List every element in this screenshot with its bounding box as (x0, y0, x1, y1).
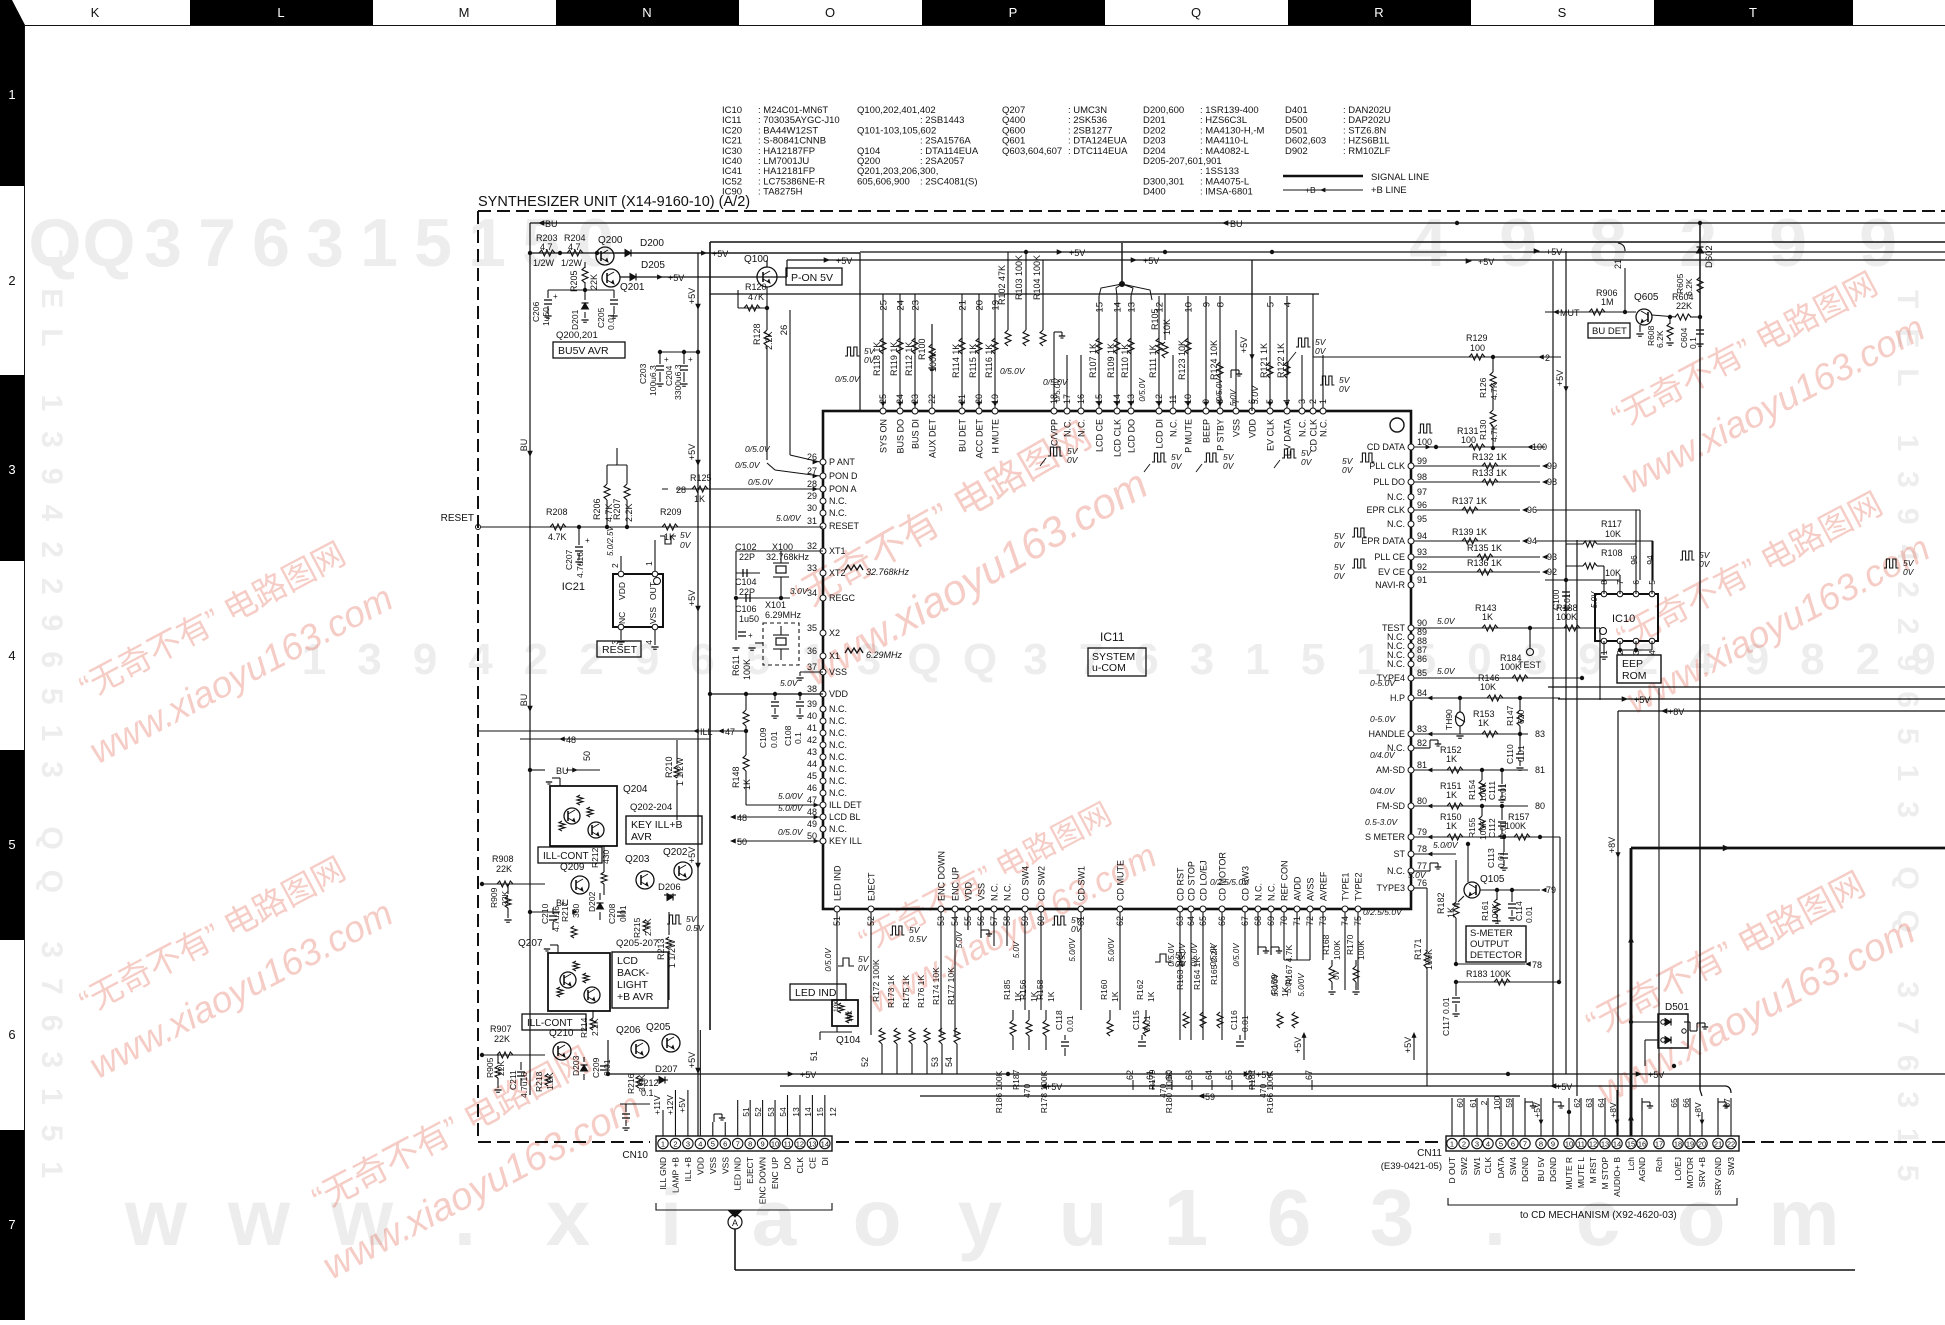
svg-text:10K: 10K (1605, 529, 1621, 539)
svg-text:1: 1 (1450, 1140, 1454, 1149)
svg-text:19: 19 (1686, 1140, 1694, 1149)
svg-text:Q200: Q200 (598, 235, 623, 246)
svg-text:BU: BU (1230, 219, 1243, 229)
svg-text:R160: R160 (1099, 979, 1109, 1000)
svg-text:44: 44 (807, 759, 817, 769)
svg-text:9: 9 (1551, 1140, 1555, 1149)
bracket pins 70-73 (1284, 959, 1310, 961)
resistor R124 10K (1217, 362, 1223, 378)
svg-text:R178 100K: R178 100K (1039, 1070, 1049, 1113)
svg-text:5.0V: 5.0V (955, 931, 964, 948)
VDD +5V drop to pin 6 (1251, 260, 1253, 411)
svg-text:78: 78 (1532, 960, 1542, 970)
svg-text:21: 21 (1714, 1140, 1722, 1149)
resistor R167 4.7K (1292, 1012, 1298, 1028)
svg-text:L: L (277, 5, 284, 20)
svg-text:IC11: IC11 (1100, 630, 1125, 644)
capacitor C604 0.1 (1699, 317, 1701, 328)
wire EPR DATA pin94 (1414, 540, 1520, 542)
svg-text:R154: R154 (1467, 779, 1477, 800)
svg-text:0V: 0V (1071, 924, 1083, 934)
svg-text:R183 100K: R183 100K (1466, 969, 1511, 979)
svg-text:12: 12 (1589, 1140, 1597, 1149)
svg-text:R165 2.2K: R165 2.2K (1209, 945, 1219, 985)
svg-text:100K: 100K (1356, 940, 1366, 960)
svg-text:BUS DI: BUS DI (911, 419, 921, 449)
IC11 top pins (880, 408, 886, 414)
svg-text:R123 10K: R123 10K (1177, 340, 1187, 380)
wire ST pin78 (1414, 853, 1456, 855)
svg-text:5.0/0V: 5.0/0V (776, 513, 802, 523)
resistor R203 4.7 1/2W (539, 250, 555, 256)
svg-text:100K: 100K (1490, 903, 1500, 923)
svg-text:1K: 1K (1446, 754, 1457, 764)
svg-text:+5V: +5V (1648, 1070, 1664, 1080)
svg-text:R119 1K: R119 1K (889, 342, 899, 376)
svg-text:K: K (91, 5, 100, 20)
capacitor C203 100u6.3 (658, 350, 662, 354)
svg-text:N.C.: N.C. (1387, 866, 1405, 876)
svg-text:TYPE1: TYPE1 (1341, 872, 1351, 901)
VSS pin7 hook gnd (1230, 370, 1232, 378)
svg-text:R104 100K: R104 100K (1032, 255, 1042, 300)
resistor R114 1K (959, 338, 965, 354)
svg-text:4.7K: 4.7K (548, 532, 567, 542)
svg-text:61: 61 (1145, 1070, 1155, 1080)
svg-text:R111 1K: R111 1K (1148, 344, 1158, 378)
svg-text:2: 2 (1679, 205, 1717, 281)
waveform icons bottom band (890, 926, 904, 935)
svg-text:C205: C205 (596, 307, 606, 328)
resistor R208 4.7K (550, 524, 566, 530)
svg-text:10: 10 (1565, 1140, 1573, 1149)
svg-text:SRV GND: SRV GND (1713, 1157, 1723, 1196)
svg-text:N: N (642, 5, 651, 20)
svg-text:P: P (1009, 5, 1018, 20)
resistor R110 1K (1128, 338, 1134, 354)
svg-text:13: 13 (791, 1107, 801, 1117)
resistor R100 100K (931, 324, 933, 345)
svg-text:0.01: 0.01 (1496, 851, 1506, 868)
svg-text:R185: R185 (1002, 979, 1012, 1000)
svg-text:10: 10 (1184, 302, 1195, 313)
svg-text:C210: C210 (540, 903, 550, 924)
red watermark (287, 1030, 648, 1288)
svg-text:AUX DET: AUX DET (928, 419, 938, 459)
capacitor C110 0.01 (1519, 734, 1521, 752)
svg-text:60: 60 (1455, 1098, 1465, 1108)
svg-text:25: 25 (879, 300, 890, 311)
svg-text:R172 100K: R172 100K (871, 959, 881, 1002)
svg-text:: IMSA-6801: : IMSA-6801 (1200, 187, 1253, 198)
svg-text:M STOP: M STOP (1600, 1157, 1610, 1190)
svg-text:3: 3 (357, 635, 381, 684)
waveform right edge (1884, 559, 1898, 568)
svg-text:PON D: PON D (829, 471, 858, 481)
svg-text:AM-SD: AM-SD (1376, 765, 1406, 775)
svg-text:D206: D206 (658, 882, 681, 893)
waveform icons inside IC top (1048, 447, 1062, 456)
svg-text:C100: C100 (1551, 589, 1561, 610)
vertical line x1695 (1699, 223, 1701, 1090)
svg-text:14: 14 (1113, 302, 1124, 313)
svg-text:0.1: 0.1 (793, 732, 803, 744)
resistor R107 1K (1096, 338, 1102, 354)
svg-text:100K: 100K (1332, 940, 1342, 960)
svg-text:SW2: SW2 (1459, 1157, 1469, 1176)
svg-text:79: 79 (1546, 885, 1556, 895)
svg-text:1: 1 (8, 87, 15, 102)
svg-text:2: 2 (1545, 353, 1550, 363)
svg-text:4.7K: 4.7K (1489, 424, 1499, 442)
ground hook near CN10 pin5 (713, 1114, 715, 1122)
svg-text:Q205-207: Q205-207 (616, 938, 658, 949)
svg-text:REGC: REGC (829, 593, 856, 603)
svg-text:3: 3 (686, 1140, 690, 1149)
svg-text:1: 1 (360, 205, 398, 281)
svg-text:16: 16 (1638, 1140, 1646, 1149)
wire BU branch to Q204 (530, 769, 545, 771)
svg-text:BU 5V: BU 5V (1536, 1157, 1546, 1182)
svg-text:R121 1K: R121 1K (1259, 343, 1269, 378)
svg-text:6.2K: 6.2K (1684, 278, 1694, 296)
svg-text:0/5.0V: 0/5.0V (1232, 943, 1241, 967)
svg-text:R168: R168 (1321, 934, 1331, 955)
resistor R121 1K (1267, 362, 1273, 378)
svg-text:15: 15 (1095, 302, 1106, 313)
resistor R147 620 (1519, 698, 1521, 710)
svg-text:20: 20 (975, 300, 986, 311)
svg-text:X1: X1 (829, 651, 840, 661)
svg-text:A: A (732, 1218, 738, 1228)
svg-text:VDD: VDD (617, 582, 627, 600)
svg-text:(E39-0421-05): (E39-0421-05) (1381, 1161, 1442, 1172)
svg-text:100K: 100K (742, 659, 752, 680)
svg-text:0.01: 0.01 (1562, 593, 1572, 610)
svg-text:R130: R130 (1478, 419, 1488, 440)
resistor R118 1K (880, 338, 886, 354)
svg-text:R147: R147 (1505, 705, 1515, 726)
svg-text:o: o (853, 1173, 902, 1262)
svg-text:0V: 0V (1334, 571, 1346, 581)
svg-text:Q100: Q100 (744, 254, 769, 265)
wire from reset divider to IC21 (649, 448, 651, 465)
svg-text:u-COM: u-COM (1092, 662, 1126, 674)
svg-text:95: 95 (1417, 514, 1427, 524)
wire top-left +5V row y253 (530, 252, 860, 254)
svg-text:10K: 10K (1605, 568, 1621, 578)
wire ILL 47 (478, 730, 746, 732)
capacitor C112 0.01 (1501, 806, 1503, 820)
svg-text:CD DATA: CD DATA (1367, 442, 1405, 452)
svg-text:REF CON: REF CON (1280, 861, 1290, 902)
thermistor TH90 (1459, 698, 1461, 712)
svg-text:1/2W: 1/2W (533, 258, 555, 268)
resistor R185 1K (1012, 1010, 1014, 1020)
svg-text:LIGHT: LIGHT (617, 979, 649, 991)
svg-text:LCD CLK: LCD CLK (1113, 419, 1123, 457)
svg-text:DO: DO (783, 1157, 793, 1170)
svg-text:Q210: Q210 (549, 1028, 574, 1039)
svg-text:+5V: +5V (1069, 248, 1085, 258)
svg-text:4: 4 (1409, 205, 1447, 281)
svg-text:S-METER: S-METER (1470, 928, 1513, 939)
capacitor C100 0.01 (1564, 578, 1568, 582)
svg-text:LED IND: LED IND (833, 865, 843, 901)
svg-text:13: 13 (1601, 1140, 1609, 1149)
resistor R611 100K vertical (745, 694, 747, 710)
svg-text:R215: R215 (632, 917, 642, 938)
svg-text:92: 92 (1547, 567, 1557, 577)
svg-text:Q104: Q104 (836, 1035, 861, 1046)
svg-text:R139 1K: R139 1K (1452, 527, 1487, 537)
svg-text:TH90: TH90 (1444, 709, 1454, 730)
svg-text:M RST: M RST (1588, 1157, 1598, 1183)
svg-text:Q207: Q207 (518, 938, 543, 949)
wire HANDLE pin83 (1414, 733, 1528, 735)
svg-text:31: 31 (807, 516, 817, 526)
resistor R183 100K (1456, 981, 1559, 983)
svg-text:1: 1 (468, 205, 506, 281)
svg-text:80: 80 (1417, 796, 1427, 806)
wire PLL CE pin93 (1414, 556, 1540, 558)
svg-text:EEP: EEP (1622, 658, 1643, 670)
svg-text:Q: Q (83, 205, 136, 281)
legend +B line (1283, 189, 1363, 191)
svg-text:3: 3 (306, 205, 344, 281)
wire BU branch 2 (530, 911, 560, 913)
wire N.C. pin82 hook (1414, 747, 1430, 749)
gnd hooks above CN11 (1524, 1102, 1526, 1110)
svg-text:28: 28 (807, 479, 817, 489)
svg-text:10K: 10K (1162, 319, 1172, 335)
svg-text:+12V: +12V (665, 1095, 675, 1115)
svg-text:TEST: TEST (1518, 660, 1542, 670)
svg-text:RESET: RESET (602, 644, 638, 656)
svg-text:5.0V: 5.0V (1437, 616, 1456, 626)
svg-text:22P: 22P (739, 552, 755, 562)
wire EPR CLK pin96 (1414, 509, 1520, 511)
IC21 leads (620, 556, 622, 571)
svg-text:+5V: +5V (1403, 1037, 1413, 1053)
svg-text:5: 5 (8, 837, 15, 852)
svg-text:59: 59 (1205, 1092, 1215, 1102)
svg-text:30: 30 (807, 503, 817, 513)
svg-text:N.C.: N.C. (1387, 492, 1405, 502)
wire vertical main left rail (709, 242, 711, 1030)
svg-text:+5V: +5V (1239, 337, 1249, 353)
svg-text:98: 98 (1547, 477, 1557, 487)
svg-text:Q205: Q205 (646, 1022, 671, 1033)
svg-text:7: 7 (736, 1140, 740, 1149)
svg-text:N.C.: N.C. (829, 716, 847, 726)
svg-text:1K: 1K (694, 494, 705, 504)
svg-text:+5V: +5V (1546, 247, 1562, 257)
svg-text:C106: C106 (735, 604, 757, 614)
svg-text:R133 1K: R133 1K (1472, 468, 1507, 478)
svg-text:PLL DO: PLL DO (1373, 477, 1405, 487)
svg-text:C104: C104 (735, 577, 757, 587)
svg-text:C116: C116 (1229, 1010, 1239, 1030)
svg-text:w: w (124, 1173, 188, 1262)
svg-text:32.768kHz: 32.768kHz (866, 567, 910, 577)
svg-text:+: + (553, 292, 558, 301)
svg-text:52: 52 (860, 1057, 870, 1067)
svg-text:N.C.: N.C. (829, 824, 847, 834)
svg-text:R115 1K: R115 1K (968, 344, 978, 378)
wire pin47 ILL DET (746, 804, 820, 806)
svg-text:0V: 0V (1339, 384, 1351, 394)
svg-text:81: 81 (1417, 760, 1427, 770)
svg-text:LCD DO: LCD DO (1127, 419, 1137, 453)
svg-text:u: u (1059, 1173, 1108, 1262)
svg-text:BU: BU (556, 766, 569, 776)
svg-text:6: 6 (1511, 1140, 1515, 1149)
svg-text:AVSS: AVSS (1306, 878, 1316, 901)
resistor R206 4.7K vertical (605, 525, 609, 529)
svg-text:R611: R611 (731, 655, 741, 676)
svg-text:82: 82 (1417, 738, 1427, 748)
wire pin37 VSS gnd (800, 671, 823, 673)
svg-text:0/4.0V: 0/4.0V (1370, 786, 1396, 796)
svg-text:R120: R120 (745, 282, 767, 292)
svg-text:Q: Q (1191, 5, 1201, 20)
svg-text:C208: C208 (607, 903, 617, 924)
svg-text:MOTOR: MOTOR (1685, 1157, 1695, 1188)
IC11 bottom pin stubs (836, 912, 838, 1000)
svg-text:Rch: Rch (1654, 1157, 1664, 1172)
svg-text:N.C.: N.C. (829, 740, 847, 750)
bottom long wire from A (734, 1229, 736, 1270)
svg-text:R129: R129 (1466, 333, 1488, 343)
svg-text:96: 96 (1629, 555, 1639, 565)
wire AM-SD pin81 (1414, 769, 1528, 771)
svg-text:+5V: +5V (836, 256, 852, 266)
svg-text:41: 41 (807, 723, 817, 733)
svg-text:0V: 0V (1223, 461, 1235, 471)
wire EV CE pin92 (1414, 571, 1540, 573)
resistor R154 100K (1481, 770, 1483, 780)
capacitor C117 0.01 (1455, 982, 1457, 996)
svg-text:4: 4 (698, 1140, 702, 1149)
capacitor C204 3300u6.3 (660, 351, 698, 353)
svg-text:9: 9 (1499, 205, 1537, 281)
label box ILL-CONT 2 (522, 1014, 586, 1030)
svg-text:BU DET: BU DET (1592, 326, 1627, 337)
svg-text:VSS: VSS (829, 667, 847, 677)
wire +B top horizontal (710, 241, 1945, 243)
svg-text:0V: 0V (1699, 559, 1711, 569)
svg-text:10: 10 (771, 1140, 779, 1149)
svg-text:PLL CE: PLL CE (1374, 552, 1405, 562)
svg-text:100: 100 (1461, 435, 1476, 445)
svg-text:2: 2 (579, 635, 603, 684)
svg-text:6: 6 (1267, 1173, 1312, 1262)
svg-text:5.0/0V: 5.0/0V (1107, 938, 1116, 962)
svg-text:14: 14 (1613, 1140, 1621, 1149)
svg-text:IC10: IC10 (1612, 613, 1635, 625)
red watermark (763, 403, 1156, 696)
svg-text:6: 6 (723, 1140, 727, 1149)
resistor R130 4.7K (1490, 410, 1496, 426)
squiggle 6.29MHz (845, 648, 863, 653)
svg-text:0/5.0V: 0/5.0V (1138, 378, 1147, 402)
resistor R102 47K (1007, 252, 1009, 330)
svg-text:1K: 1K (1110, 991, 1120, 1002)
svg-text:61: 61 (1468, 1098, 1478, 1108)
label box RESET (597, 641, 641, 657)
svg-text:34: 34 (807, 588, 817, 598)
svg-text:Q200,201: Q200,201 (556, 330, 598, 341)
CN11 top stubs (1451, 1098, 1453, 1136)
svg-text:R210: R210 (664, 756, 674, 778)
svg-text:5.0/2.5V: 5.0/2.5V (606, 526, 615, 556)
waveform near reset (660, 536, 676, 544)
svg-text:CLK: CLK (795, 1157, 805, 1174)
svg-text:R155: R155 (1467, 817, 1477, 838)
svg-text:100: 100 (1532, 442, 1547, 452)
svg-text:Q: Q (963, 635, 997, 684)
svg-text:R206: R206 (592, 498, 602, 520)
svg-text:LAMP +B: LAMP +B (670, 1157, 680, 1193)
svg-text:4: 4 (468, 635, 493, 684)
svg-text:R909: R909 (489, 887, 499, 908)
svg-text:+5V: +5V (687, 1052, 697, 1068)
svg-text:39: 39 (807, 699, 817, 709)
svg-text:0.01: 0.01 (769, 731, 779, 748)
svg-text:1K: 1K (1446, 790, 1457, 800)
svg-text:5.0V: 5.0V (780, 678, 799, 688)
svg-text:R170: R170 (1345, 934, 1355, 955)
transistor Q201 (602, 269, 620, 287)
svg-text:0/5.0V: 0/5.0V (1215, 378, 1224, 402)
resistor R115 1K (976, 338, 982, 354)
svg-text:5.0V: 5.0V (1408, 870, 1427, 880)
svg-text:0.01: 0.01 (1498, 783, 1508, 800)
svg-text:11: 11 (1577, 1140, 1585, 1149)
svg-text:R207: R207 (612, 498, 622, 520)
svg-text:91: 91 (1417, 575, 1427, 585)
svg-text:0V: 0V (1301, 457, 1313, 467)
svg-text:50: 50 (582, 751, 592, 761)
svg-text:KEY ILL+B: KEY ILL+B (631, 819, 682, 831)
svg-text:36: 36 (807, 646, 817, 656)
svg-text:28: 28 (676, 485, 686, 495)
svg-text:99: 99 (1417, 456, 1427, 466)
svg-text:0/2.5/5.0V: 0/2.5/5.0V (1363, 907, 1403, 917)
svg-text:79: 79 (1417, 827, 1427, 837)
resistor R204 4.7 1/2W (567, 250, 583, 256)
svg-text:48: 48 (566, 735, 576, 745)
svg-text:12: 12 (828, 1107, 838, 1117)
svg-text:21: 21 (958, 300, 969, 311)
svg-text:VSS: VSS (720, 1157, 730, 1174)
bottom +5V rail 1 (608, 1073, 1945, 1075)
svg-text:R187: R187 (1011, 1069, 1021, 1090)
svg-text:65: 65 (1669, 1098, 1679, 1108)
capacitor C113 0.01 (1503, 837, 1505, 852)
svg-text:17: 17 (1655, 1140, 1663, 1149)
wire pin26 P ANT (789, 420, 791, 455)
svg-text:R103 100K: R103 100K (1014, 255, 1024, 300)
IC11 left pins (820, 459, 826, 465)
svg-text:N.C.: N.C. (829, 776, 847, 786)
svg-text:ILL-CONT: ILL-CONT (543, 851, 589, 862)
resistor R161 100K (1496, 890, 1498, 900)
wire PLL DO pin98 (1414, 481, 1540, 483)
svg-text:10K: 10K (847, 1010, 854, 1022)
svg-text:53: 53 (930, 1057, 940, 1067)
